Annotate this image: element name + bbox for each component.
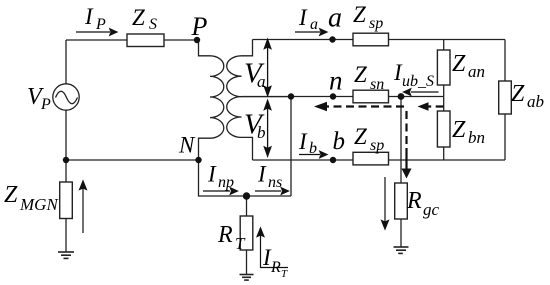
svg-text:an: an xyxy=(468,62,485,81)
node n xyxy=(330,93,336,99)
wire a-line right xyxy=(388,39,505,41)
ground below R_T xyxy=(240,275,254,281)
node b xyxy=(330,157,336,163)
wire I_ns vertical up xyxy=(290,97,292,197)
dashed current path I_ub vertical to R_gc xyxy=(402,111,412,179)
svg-text:R: R xyxy=(217,222,233,248)
current arrow I_RT xyxy=(257,228,288,268)
svg-text:ub_S: ub_S xyxy=(402,73,434,90)
svg-text:I: I xyxy=(84,4,94,29)
svg-text:gc: gc xyxy=(423,200,440,219)
svg-text:S: S xyxy=(149,16,157,33)
wire R_gc to ground xyxy=(400,219,402,247)
resistor Z_sp bottom xyxy=(353,152,389,165)
svg-text:T: T xyxy=(235,234,246,253)
node a xyxy=(329,36,335,42)
current arrow I_np xyxy=(203,188,238,194)
wire R_T top xyxy=(246,196,248,216)
svg-text:Z: Z xyxy=(452,117,466,143)
svg-text:ns: ns xyxy=(268,174,282,191)
svg-text:I: I xyxy=(257,162,267,187)
wire a-line left xyxy=(253,39,354,41)
svg-text:Z: Z xyxy=(511,81,525,107)
svg-text:P: P xyxy=(95,16,106,33)
svg-text:sp: sp xyxy=(370,137,384,154)
voltage source V_P xyxy=(53,84,79,110)
current arrow I_ns xyxy=(255,188,289,194)
svg-text:P: P xyxy=(191,12,208,41)
transformer secondary winding upper xyxy=(227,40,291,97)
current arrow I_ub_S xyxy=(404,89,439,95)
current arrow at R_gc xyxy=(382,177,389,229)
resistor Z_sp top xyxy=(353,33,389,46)
wire b-line right xyxy=(388,159,505,161)
svg-text:Z: Z xyxy=(354,124,367,149)
resistor R_T xyxy=(240,216,253,250)
svg-text:I: I xyxy=(298,129,308,154)
resistor Z_MGN xyxy=(60,182,73,219)
wire N branch down xyxy=(199,160,292,196)
wire right edge vertical lower xyxy=(504,114,506,160)
voltage arrow V_b xyxy=(264,101,270,157)
resistor Z_ab xyxy=(499,81,512,114)
wire Z_an to n-line xyxy=(443,85,445,111)
svg-text:a: a xyxy=(328,3,342,34)
svg-text:Z: Z xyxy=(354,62,367,87)
node R_T junction xyxy=(243,192,250,199)
ground below R_gc xyxy=(394,247,409,253)
svg-text:bn: bn xyxy=(468,128,485,147)
resistor Z_bn xyxy=(437,111,450,147)
wire b-line left xyxy=(253,159,354,161)
svg-text:Z: Z xyxy=(353,2,366,27)
wire left vertical above source xyxy=(65,40,67,84)
svg-text:b: b xyxy=(309,140,317,157)
node center tap junction xyxy=(288,93,294,99)
resistor Z_sn xyxy=(353,90,389,103)
svg-text:Z: Z xyxy=(132,5,145,30)
resistor R_gc xyxy=(395,183,408,219)
svg-text:Z: Z xyxy=(4,182,18,208)
svg-text:I: I xyxy=(207,162,217,187)
wire right edge vertical xyxy=(504,40,506,82)
wire Z_bn bottom stub xyxy=(443,147,445,160)
svg-text:Z: Z xyxy=(452,51,466,77)
wire left vertical below source xyxy=(65,110,67,182)
voltage arrow V_a xyxy=(264,40,270,96)
svg-text:R: R xyxy=(270,259,281,276)
wire N-line xyxy=(66,159,199,161)
wire top P-line right segment xyxy=(164,39,197,41)
svg-text:T: T xyxy=(281,268,288,280)
dashed current path I_ub horizontal xyxy=(314,102,444,112)
node P xyxy=(194,37,200,43)
resistor Z_an xyxy=(437,50,450,85)
svg-text:b: b xyxy=(333,128,346,155)
wire top P-line left segment xyxy=(66,39,127,41)
transformer primary winding xyxy=(197,40,224,160)
current arrow at Z_MGN xyxy=(80,181,87,233)
svg-text:a: a xyxy=(310,16,318,33)
node N xyxy=(195,157,201,163)
ground below Z_MGN xyxy=(58,252,74,258)
svg-text:b: b xyxy=(257,123,266,142)
svg-text:I: I xyxy=(298,5,308,30)
current arrow I_P xyxy=(76,29,117,35)
resistor Z_S xyxy=(127,34,164,47)
svg-text:a: a xyxy=(257,72,266,91)
wire Z_MGN to ground xyxy=(65,219,67,253)
svg-text:ab: ab xyxy=(527,92,544,111)
svg-text:sp: sp xyxy=(369,15,383,32)
node S xyxy=(398,93,405,100)
transformer secondary winding lower xyxy=(227,97,253,160)
wire n-line left xyxy=(242,96,354,98)
current arrow I_b xyxy=(299,151,327,157)
wire n-line right xyxy=(388,96,444,98)
svg-text:sn: sn xyxy=(370,76,384,93)
wire Z_an top stub xyxy=(443,40,445,51)
svg-text:N: N xyxy=(178,133,196,158)
svg-text:MGN: MGN xyxy=(19,195,59,214)
svg-text:P: P xyxy=(40,96,51,113)
wire S branch down to R_gc xyxy=(400,97,402,184)
svg-text:n: n xyxy=(329,66,343,96)
wire R_T bottom xyxy=(246,250,248,275)
current arrow I_a xyxy=(295,29,327,35)
node left junction xyxy=(63,157,69,163)
svg-text:R: R xyxy=(406,188,422,214)
svg-text:np: np xyxy=(218,174,234,191)
